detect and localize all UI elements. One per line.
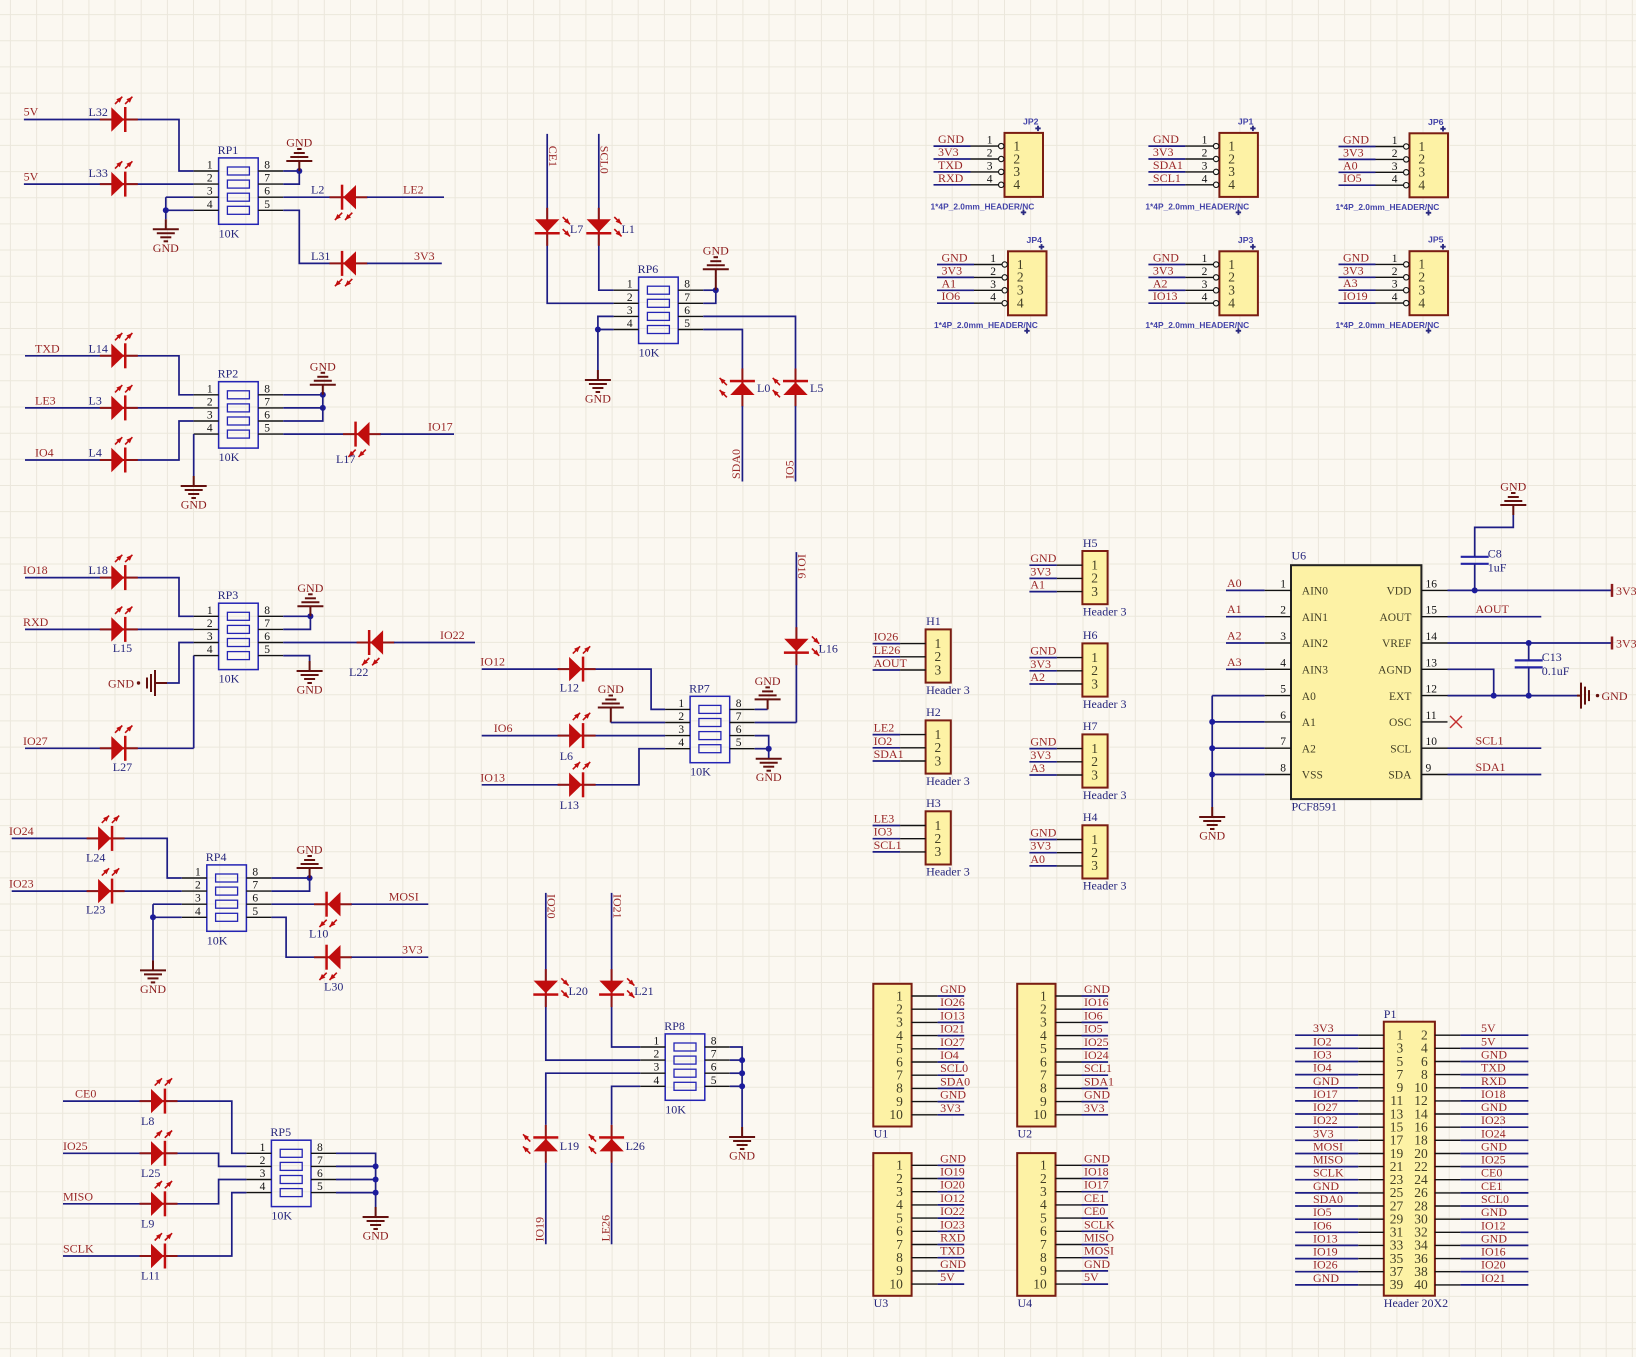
- svg-text:3: 3: [1202, 160, 1208, 172]
- svg-text:1: 1: [1202, 253, 1208, 265]
- svg-text:EXT: EXT: [1389, 691, 1411, 703]
- svg-text:10K: 10K: [219, 672, 240, 686]
- svg-text:AIN1: AIN1: [1302, 612, 1328, 624]
- svg-text:RP5: RP5: [270, 1125, 291, 1139]
- svg-text:IO20: IO20: [1481, 1258, 1506, 1272]
- svg-text:L4: L4: [89, 446, 102, 460]
- svg-text:6: 6: [711, 1062, 717, 1074]
- svg-text:3V3: 3V3: [1616, 584, 1636, 598]
- svg-text:IO12: IO12: [1481, 1218, 1506, 1232]
- svg-text:IO27: IO27: [940, 1035, 965, 1049]
- svg-text:5: 5: [684, 318, 690, 330]
- svg-text:JP5: JP5: [1428, 235, 1444, 245]
- svg-text:LE26: LE26: [598, 1215, 612, 1242]
- svg-text:IO22: IO22: [440, 628, 465, 642]
- svg-text:IO26: IO26: [874, 630, 899, 644]
- svg-text:3: 3: [935, 844, 942, 859]
- svg-text:SCLK: SCLK: [63, 1242, 94, 1256]
- svg-text:3: 3: [935, 753, 942, 768]
- svg-text:9: 9: [1426, 763, 1432, 775]
- svg-text:VREF: VREF: [1382, 638, 1411, 650]
- svg-text:2: 2: [987, 148, 993, 160]
- svg-text:SCLK: SCLK: [1313, 1166, 1344, 1180]
- svg-text:IO2: IO2: [874, 734, 893, 748]
- svg-text:IO4: IO4: [35, 446, 54, 460]
- svg-text:3V3: 3V3: [1030, 564, 1051, 578]
- svg-text:GND: GND: [1153, 132, 1179, 146]
- svg-text:5: 5: [264, 423, 270, 435]
- svg-text:2: 2: [678, 711, 684, 723]
- svg-text:GND: GND: [1030, 551, 1056, 565]
- svg-text:L8: L8: [141, 1114, 154, 1128]
- svg-text:2: 2: [1392, 266, 1398, 278]
- svg-text:Header 3: Header 3: [926, 774, 970, 788]
- svg-text:SCL0: SCL0: [598, 146, 612, 174]
- svg-text:MOSI: MOSI: [1313, 1140, 1343, 1154]
- svg-text:Header 3: Header 3: [926, 865, 970, 879]
- svg-text:L5: L5: [810, 381, 823, 395]
- svg-text:SCL0: SCL0: [1481, 1192, 1509, 1206]
- svg-text:IO17: IO17: [1313, 1087, 1338, 1101]
- svg-text:C13: C13: [1542, 650, 1562, 664]
- svg-text:GND: GND: [1199, 829, 1225, 843]
- svg-text:GND: GND: [1481, 1048, 1507, 1062]
- svg-text:2: 2: [1280, 605, 1286, 617]
- svg-text:3V3: 3V3: [1030, 839, 1051, 853]
- svg-text:TXD: TXD: [1481, 1061, 1506, 1075]
- svg-text:GND: GND: [940, 982, 966, 996]
- svg-text:IO16: IO16: [795, 554, 809, 579]
- svg-text:3V3: 3V3: [1153, 145, 1174, 159]
- svg-text:L6: L6: [560, 749, 573, 763]
- svg-text:IO17: IO17: [428, 420, 453, 434]
- svg-text:L17: L17: [336, 452, 355, 466]
- svg-text:4: 4: [1392, 174, 1398, 186]
- svg-text:3: 3: [627, 305, 633, 317]
- svg-text:L16: L16: [819, 642, 838, 656]
- svg-text:H6: H6: [1083, 628, 1098, 642]
- svg-text:6: 6: [684, 305, 690, 317]
- svg-text:39: 39: [1390, 1277, 1404, 1292]
- svg-text:5: 5: [264, 199, 270, 211]
- svg-text:TXD: TXD: [940, 1244, 965, 1258]
- svg-text:IO20: IO20: [545, 894, 559, 919]
- svg-text:1: 1: [990, 253, 996, 265]
- svg-text:GND: GND: [755, 674, 781, 688]
- svg-text:RXD: RXD: [938, 171, 964, 185]
- svg-text:GND: GND: [297, 843, 323, 857]
- svg-text:U3: U3: [874, 1296, 889, 1310]
- svg-text:AIN2: AIN2: [1302, 638, 1328, 650]
- svg-text:4: 4: [627, 318, 633, 330]
- svg-text:2: 2: [1392, 148, 1398, 160]
- svg-text:GND: GND: [1153, 251, 1179, 265]
- svg-text:1*4P_2.0mm_HEADER/NC: 1*4P_2.0mm_HEADER/NC: [1145, 202, 1249, 212]
- svg-text:GND: GND: [1481, 1140, 1507, 1154]
- svg-text:4: 4: [1228, 177, 1235, 192]
- svg-text:U6: U6: [1292, 549, 1307, 563]
- svg-text:3V3: 3V3: [402, 943, 423, 957]
- svg-text:A0: A0: [1343, 158, 1358, 172]
- svg-text:Header 3: Header 3: [1083, 788, 1127, 802]
- svg-text:L10: L10: [309, 927, 328, 941]
- svg-text:4: 4: [1017, 296, 1024, 311]
- svg-text:16: 16: [1426, 578, 1438, 590]
- svg-text:L30: L30: [324, 980, 343, 994]
- svg-text:1: 1: [207, 383, 213, 395]
- svg-text:5: 5: [252, 906, 258, 918]
- svg-text:C8: C8: [1488, 546, 1502, 560]
- svg-text:3: 3: [935, 662, 942, 677]
- svg-text:13: 13: [1426, 657, 1438, 669]
- svg-text:L13: L13: [560, 798, 579, 812]
- svg-text:1*4P_2.0mm_HEADER/NC: 1*4P_2.0mm_HEADER/NC: [934, 320, 1038, 330]
- svg-text:3: 3: [653, 1062, 659, 1074]
- svg-text:7: 7: [252, 880, 258, 892]
- svg-text:4: 4: [678, 737, 684, 749]
- svg-text:3V3: 3V3: [1030, 657, 1051, 671]
- svg-text:8: 8: [711, 1036, 717, 1048]
- svg-text:GND: GND: [310, 359, 336, 373]
- svg-text:L25: L25: [141, 1166, 160, 1180]
- svg-text:L32: L32: [89, 105, 108, 119]
- svg-text:8: 8: [317, 1142, 323, 1154]
- svg-text:IO18: IO18: [23, 563, 48, 577]
- svg-text:5V: 5V: [1084, 1270, 1099, 1284]
- svg-text:1: 1: [987, 135, 993, 147]
- svg-text:RP1: RP1: [218, 143, 239, 157]
- svg-text:0.1uF: 0.1uF: [1542, 664, 1570, 678]
- svg-text:4: 4: [1392, 292, 1398, 304]
- svg-text:7: 7: [317, 1155, 323, 1167]
- svg-text:A1: A1: [942, 276, 957, 290]
- svg-text:10K: 10K: [219, 226, 240, 240]
- svg-text:6: 6: [264, 410, 270, 422]
- svg-text:4: 4: [1418, 178, 1425, 193]
- svg-text:AIN0: AIN0: [1302, 586, 1328, 598]
- svg-text:A0: A0: [1227, 576, 1242, 590]
- svg-text:L2: L2: [311, 183, 324, 197]
- svg-text:IO24: IO24: [9, 824, 34, 838]
- svg-text:GND: GND: [940, 1257, 966, 1271]
- svg-text:3: 3: [260, 1168, 266, 1180]
- svg-text:IO22: IO22: [940, 1204, 965, 1218]
- svg-text:L12: L12: [560, 681, 579, 695]
- svg-text:OSC: OSC: [1389, 717, 1412, 729]
- svg-text:CE0: CE0: [1481, 1166, 1502, 1180]
- svg-text:IO23: IO23: [1481, 1113, 1506, 1127]
- svg-text:L0: L0: [757, 381, 770, 395]
- svg-text:1: 1: [207, 160, 213, 172]
- svg-text:GND: GND: [938, 132, 964, 146]
- svg-text:L31: L31: [311, 249, 330, 263]
- svg-text:3: 3: [1091, 858, 1098, 873]
- svg-text:4: 4: [990, 292, 996, 304]
- svg-text:GND: GND: [703, 244, 729, 258]
- svg-text:3V3: 3V3: [1153, 263, 1174, 277]
- svg-text:2: 2: [260, 1155, 266, 1167]
- svg-text:A3: A3: [1227, 655, 1242, 669]
- svg-text:IO5: IO5: [1313, 1205, 1332, 1219]
- svg-text:10: 10: [1033, 1107, 1047, 1122]
- svg-text:IO18: IO18: [1481, 1087, 1506, 1101]
- svg-text:RP8: RP8: [664, 1019, 685, 1033]
- svg-text:GND: GND: [1343, 133, 1369, 147]
- svg-text:5: 5: [711, 1075, 717, 1087]
- svg-text:IO18: IO18: [1084, 1165, 1109, 1179]
- svg-text:7: 7: [264, 618, 270, 630]
- svg-text:4: 4: [207, 199, 213, 211]
- svg-text:4: 4: [1418, 295, 1425, 310]
- svg-text:4: 4: [987, 173, 993, 185]
- svg-text:RXD: RXD: [1481, 1074, 1507, 1088]
- svg-text:5V: 5V: [1481, 1021, 1496, 1035]
- svg-text:AGND: AGND: [1378, 665, 1411, 677]
- svg-text:11: 11: [1426, 710, 1437, 722]
- svg-text:L23: L23: [86, 903, 105, 917]
- svg-text:3V3: 3V3: [1616, 637, 1636, 651]
- svg-text:IO13: IO13: [940, 1008, 965, 1022]
- svg-text:SCL0: SCL0: [940, 1061, 968, 1075]
- svg-text:40: 40: [1414, 1277, 1428, 1292]
- svg-text:GND: GND: [181, 498, 207, 512]
- svg-text:H3: H3: [926, 796, 941, 810]
- svg-text:3V3: 3V3: [1343, 263, 1364, 277]
- svg-text:U2: U2: [1018, 1127, 1033, 1141]
- svg-text:IO25: IO25: [1084, 1035, 1109, 1049]
- svg-text:14: 14: [1426, 631, 1438, 643]
- svg-text:MOSI: MOSI: [389, 890, 419, 904]
- svg-text:L19: L19: [560, 1139, 579, 1153]
- svg-text:JP3: JP3: [1238, 235, 1254, 245]
- svg-text:2: 2: [207, 173, 213, 185]
- svg-text:H5: H5: [1083, 536, 1098, 550]
- svg-text:3: 3: [207, 186, 213, 198]
- svg-text:A0: A0: [1302, 691, 1316, 703]
- svg-text:6: 6: [1280, 710, 1286, 722]
- svg-text:GND: GND: [286, 136, 312, 150]
- svg-text:IO19: IO19: [940, 1165, 965, 1179]
- svg-text:SDA: SDA: [1388, 770, 1412, 782]
- svg-text:2: 2: [195, 880, 201, 892]
- svg-text:10K: 10K: [219, 450, 240, 464]
- svg-text:Header 3: Header 3: [1083, 604, 1127, 618]
- svg-text:8: 8: [264, 160, 270, 172]
- svg-text:4: 4: [207, 644, 213, 656]
- svg-text:4: 4: [653, 1075, 659, 1087]
- svg-text:GND: GND: [585, 392, 611, 406]
- svg-text:IO20: IO20: [940, 1178, 965, 1192]
- svg-text:CE1: CE1: [1084, 1191, 1105, 1205]
- svg-text:5: 5: [1280, 684, 1286, 696]
- svg-text:RP6: RP6: [638, 262, 659, 276]
- svg-text:IO22: IO22: [1313, 1113, 1338, 1127]
- svg-text:GND: GND: [1500, 480, 1526, 494]
- svg-text:7: 7: [711, 1049, 717, 1061]
- svg-text:GND: GND: [1313, 1271, 1339, 1285]
- svg-text:GND: GND: [1030, 826, 1056, 840]
- svg-text:6: 6: [252, 893, 258, 905]
- svg-text:3: 3: [990, 279, 996, 291]
- svg-text:CE1: CE1: [1481, 1179, 1502, 1193]
- svg-text:12: 12: [1426, 684, 1438, 696]
- svg-text:IO19: IO19: [1313, 1245, 1338, 1259]
- svg-text:1: 1: [1392, 135, 1398, 147]
- svg-text:7: 7: [736, 711, 742, 723]
- svg-text:GND: GND: [598, 682, 624, 696]
- svg-text:A2: A2: [1153, 276, 1168, 290]
- svg-text:IO4: IO4: [1313, 1061, 1332, 1075]
- svg-text:6: 6: [264, 186, 270, 198]
- svg-text:A1: A1: [1030, 578, 1045, 592]
- svg-text:IO16: IO16: [1481, 1245, 1506, 1259]
- svg-text:L21: L21: [634, 984, 653, 998]
- svg-text:IO5: IO5: [1343, 171, 1362, 185]
- svg-text:AIN3: AIN3: [1302, 665, 1328, 677]
- svg-text:L33: L33: [89, 166, 108, 180]
- svg-text:SDA1: SDA1: [1153, 158, 1183, 172]
- svg-text:3V3: 3V3: [1313, 1126, 1334, 1140]
- svg-text:IO4: IO4: [940, 1048, 959, 1062]
- svg-text:3V3: 3V3: [1084, 1101, 1105, 1115]
- svg-text:CE0: CE0: [75, 1087, 96, 1101]
- svg-text:3V3: 3V3: [1030, 748, 1051, 762]
- svg-text:1*4P_2.0mm_HEADER/NC: 1*4P_2.0mm_HEADER/NC: [931, 202, 1035, 212]
- svg-text:1*4P_2.0mm_HEADER/NC: 1*4P_2.0mm_HEADER/NC: [1336, 320, 1440, 330]
- svg-text:GND: GND: [1343, 250, 1369, 264]
- svg-text:IO16: IO16: [1084, 995, 1109, 1009]
- svg-text:1: 1: [195, 867, 201, 879]
- svg-text:A1: A1: [1302, 717, 1316, 729]
- svg-text:IO27: IO27: [1313, 1100, 1338, 1114]
- svg-text:4: 4: [260, 1181, 266, 1193]
- svg-text:3V3: 3V3: [940, 1101, 961, 1115]
- svg-text:GND: GND: [1030, 644, 1056, 658]
- svg-text:RXD: RXD: [23, 615, 49, 629]
- svg-text:7: 7: [684, 292, 690, 304]
- svg-text:SCL1: SCL1: [1153, 171, 1181, 185]
- svg-text:GND: GND: [942, 251, 968, 265]
- svg-text:GND: GND: [363, 1229, 389, 1243]
- svg-text:L3: L3: [89, 393, 102, 407]
- svg-text:SDA1: SDA1: [1084, 1074, 1114, 1088]
- svg-text:IO24: IO24: [1084, 1048, 1109, 1062]
- svg-text:2: 2: [653, 1049, 659, 1061]
- svg-text:8: 8: [264, 383, 270, 395]
- svg-text:3: 3: [678, 724, 684, 736]
- svg-text:3: 3: [987, 160, 993, 172]
- svg-text:GND: GND: [1481, 1205, 1507, 1219]
- svg-text:1uF: 1uF: [1488, 560, 1507, 574]
- svg-text:8: 8: [264, 605, 270, 617]
- svg-text:Header 20X2: Header 20X2: [1384, 1296, 1448, 1310]
- svg-text:8: 8: [252, 867, 258, 879]
- svg-text:RP2: RP2: [218, 367, 239, 381]
- svg-text:RXD: RXD: [940, 1231, 966, 1245]
- svg-text:IO6: IO6: [1313, 1218, 1332, 1232]
- svg-text:VDD: VDD: [1386, 586, 1411, 598]
- svg-text:P1: P1: [1384, 1007, 1397, 1021]
- svg-text:5V: 5V: [24, 105, 39, 119]
- svg-text:JP2: JP2: [1023, 116, 1039, 126]
- svg-text:3: 3: [195, 893, 201, 905]
- svg-text:3: 3: [1392, 279, 1398, 291]
- svg-text:GND: GND: [940, 1088, 966, 1102]
- svg-text:10: 10: [1033, 1276, 1047, 1291]
- svg-text:LE3: LE3: [35, 393, 56, 407]
- svg-text:SDA1: SDA1: [1476, 760, 1506, 774]
- svg-text:U4: U4: [1018, 1296, 1033, 1310]
- svg-text:10: 10: [889, 1276, 903, 1291]
- svg-text:5: 5: [736, 737, 742, 749]
- svg-text:IO19: IO19: [533, 1217, 547, 1242]
- svg-text:IO5: IO5: [782, 460, 796, 479]
- svg-text:Header 3: Header 3: [926, 683, 970, 697]
- svg-text:GND: GND: [297, 581, 323, 595]
- svg-text:IO3: IO3: [874, 825, 893, 839]
- svg-text:RP7: RP7: [689, 681, 710, 695]
- svg-text:1: 1: [1392, 253, 1398, 265]
- svg-text:IO25: IO25: [1481, 1153, 1506, 1167]
- svg-text:GND: GND: [1313, 1179, 1339, 1193]
- svg-text:3V3: 3V3: [942, 263, 963, 277]
- svg-text:L15: L15: [113, 641, 132, 655]
- svg-text:LE2: LE2: [874, 721, 895, 735]
- svg-text:L27: L27: [113, 760, 132, 774]
- svg-text:IO17: IO17: [1084, 1178, 1109, 1192]
- svg-text:L18: L18: [89, 563, 108, 577]
- svg-text:LE26: LE26: [874, 643, 901, 657]
- svg-text:A3: A3: [1343, 276, 1358, 290]
- svg-text:Header 3: Header 3: [1083, 697, 1127, 711]
- svg-text:IO12: IO12: [940, 1191, 965, 1205]
- svg-text:3V3: 3V3: [938, 145, 959, 159]
- svg-text:H1: H1: [926, 614, 941, 628]
- svg-text:6: 6: [317, 1168, 323, 1180]
- svg-text:5: 5: [264, 644, 270, 656]
- svg-text:JP1: JP1: [1238, 116, 1254, 126]
- svg-text:LE3: LE3: [874, 812, 895, 826]
- svg-text:CE1: CE1: [546, 146, 560, 167]
- svg-text:1: 1: [207, 605, 213, 617]
- svg-text:2: 2: [1202, 266, 1208, 278]
- svg-text:IO25: IO25: [63, 1139, 88, 1153]
- svg-text:15: 15: [1426, 605, 1438, 617]
- svg-text:GND: GND: [1602, 689, 1628, 703]
- svg-text:MISO: MISO: [1084, 1231, 1114, 1245]
- svg-text:10: 10: [1426, 736, 1438, 748]
- svg-text:GND: GND: [140, 982, 166, 996]
- svg-text:IO3: IO3: [1313, 1048, 1332, 1062]
- svg-text:SCL1: SCL1: [1084, 1061, 1112, 1075]
- svg-text:IO13: IO13: [480, 770, 505, 784]
- svg-text:GND: GND: [729, 1149, 755, 1163]
- svg-text:L7: L7: [570, 222, 583, 236]
- svg-text:3: 3: [1392, 161, 1398, 173]
- svg-text:GND: GND: [1481, 1231, 1507, 1245]
- svg-text:GND: GND: [756, 770, 782, 784]
- svg-text:10K: 10K: [271, 1209, 292, 1223]
- svg-text:GND: GND: [1313, 1074, 1339, 1088]
- svg-text:A0: A0: [1030, 852, 1045, 866]
- svg-text:8: 8: [736, 698, 742, 710]
- svg-text:2: 2: [627, 292, 633, 304]
- svg-text:10K: 10K: [665, 1102, 686, 1116]
- svg-text:1: 1: [653, 1036, 659, 1048]
- svg-text:U1: U1: [874, 1127, 889, 1141]
- svg-text:SDA0: SDA0: [729, 449, 743, 479]
- svg-text:TXD: TXD: [35, 341, 60, 355]
